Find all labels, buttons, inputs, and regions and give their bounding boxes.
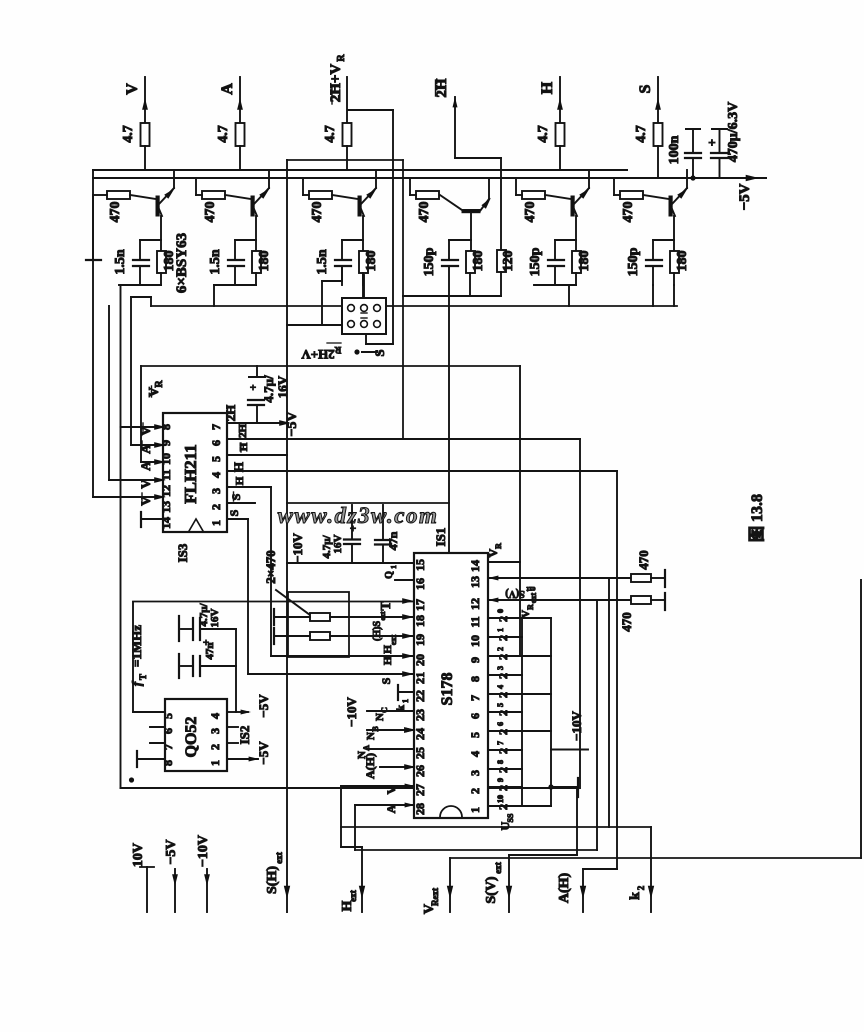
svg-text:470: 470 (523, 202, 538, 223)
svg-text:S(V): S(V) (505, 588, 524, 599)
svg-text:2: 2 (496, 785, 510, 791)
svg-text:2: 2 (496, 692, 510, 698)
svg-text:A: A (362, 745, 371, 751)
svg-text:23: 23 (413, 709, 427, 721)
svg-text:4.7: 4.7 (121, 125, 136, 143)
svg-text:Q: Q (384, 571, 395, 579)
svg-text:2: 2 (496, 729, 510, 735)
svg-text:2H+V: 2H+V (301, 347, 335, 362)
svg-text:21: 21 (413, 672, 427, 684)
svg-text:S: S (379, 677, 393, 684)
svg-text:−10V: −10V (196, 835, 211, 867)
svg-text:13: 13 (468, 576, 482, 588)
svg-text:ext: ext (493, 862, 503, 874)
svg-text:1: 1 (209, 520, 223, 526)
svg-text:16V: 16V (275, 375, 290, 398)
svg-text:3: 3 (468, 770, 482, 776)
svg-text:2: 2 (496, 804, 510, 810)
svg-text:5: 5 (161, 713, 175, 719)
svg-text:2×470: 2×470 (263, 550, 278, 583)
svg-text:2: 2 (496, 710, 510, 716)
svg-text:(H)S: (H)S (372, 621, 383, 641)
svg-text:3: 3 (496, 666, 505, 670)
svg-text:A: A (138, 444, 153, 454)
svg-text:2: 2 (208, 744, 222, 750)
svg-text:ext: ext (389, 635, 398, 646)
svg-text:=1MHz: =1MHz (129, 625, 144, 667)
svg-text:4: 4 (209, 472, 223, 478)
svg-text:4.7μ/: 4.7μ/ (261, 375, 276, 403)
svg-text:6×BSY63: 6×BSY63 (174, 233, 190, 293)
svg-text:17: 17 (413, 599, 427, 611)
svg-text:H H: H H (382, 645, 394, 665)
svg-text:10V: 10V (131, 843, 146, 867)
svg-text:C: C (380, 707, 389, 713)
svg-text:12: 12 (468, 598, 482, 610)
svg-text:470μ/6.3V: 470μ/6.3V (726, 102, 741, 162)
svg-text:2: 2 (496, 748, 510, 754)
svg-text:S: S (637, 84, 654, 93)
svg-text:1.5n: 1.5n (208, 249, 223, 275)
svg-text:IS1: IS1 (433, 528, 448, 547)
svg-text:18: 18 (413, 615, 427, 627)
svg-text:2: 2 (468, 788, 482, 794)
svg-text:−10V: −10V (569, 710, 584, 740)
svg-text:120: 120 (501, 251, 516, 272)
svg-text:7: 7 (161, 744, 175, 750)
svg-text:图 13.8: 图 13.8 (748, 494, 766, 542)
svg-text:+: + (250, 382, 256, 394)
svg-text:H: H (238, 442, 250, 451)
svg-text:10: 10 (468, 635, 482, 647)
svg-text:19: 19 (413, 634, 427, 646)
svg-text:Rext: Rext (430, 888, 440, 906)
svg-text:4: 4 (208, 713, 222, 719)
svg-text:www.dz3w.com: www.dz3w.com (278, 503, 439, 528)
svg-text:A: A (219, 83, 236, 95)
svg-text:4.7: 4.7 (536, 125, 551, 143)
svg-text:T: T (138, 674, 148, 680)
svg-text:+: + (708, 135, 715, 150)
svg-text:8: 8 (496, 760, 505, 764)
svg-text:S(H): S(H) (265, 866, 280, 894)
svg-text:150p: 150p (528, 247, 543, 276)
svg-text:2H: 2H (223, 405, 238, 422)
svg-text:47n: 47n (386, 531, 400, 550)
svg-text:28: 28 (413, 803, 427, 815)
svg-text:2: 2 (209, 504, 223, 510)
svg-text:9: 9 (496, 778, 505, 782)
svg-text:6: 6 (468, 713, 482, 719)
svg-text:470: 470 (310, 202, 325, 223)
svg-text:14: 14 (468, 560, 482, 572)
svg-text:4.7: 4.7 (634, 125, 649, 143)
svg-text:180: 180 (257, 251, 272, 272)
svg-text:100n: 100n (667, 135, 682, 164)
svg-text:1.5n: 1.5n (315, 249, 330, 275)
svg-text:4: 4 (496, 685, 505, 689)
svg-text:−10V: −10V (290, 532, 305, 562)
svg-text:ext: ext (379, 611, 387, 621)
svg-text:S: S (372, 349, 387, 356)
svg-text:8: 8 (161, 760, 175, 766)
svg-text:1: 1 (468, 807, 482, 813)
svg-text:S(V): S(V) (484, 876, 499, 904)
svg-text:k: k (628, 892, 643, 900)
svg-text:150p: 150p (626, 247, 641, 276)
svg-text:180: 180 (577, 251, 592, 272)
svg-text:2: 2 (496, 767, 510, 773)
svg-text:1: 1 (390, 565, 398, 569)
svg-text:A(H): A(H) (557, 873, 572, 904)
svg-text:7: 7 (209, 424, 223, 430)
svg-text:3: 3 (209, 488, 223, 494)
svg-text:1: 1 (208, 760, 222, 766)
svg-text:9: 9 (468, 657, 482, 663)
svg-text:ext: ext (529, 593, 538, 604)
svg-text:27: 27 (413, 784, 427, 796)
svg-text:V: V (138, 479, 153, 489)
svg-text:R: R (334, 345, 341, 355)
svg-text:2: 2 (496, 616, 510, 622)
svg-text:−10V: −10V (344, 696, 359, 726)
svg-text:H: H (234, 476, 246, 485)
svg-text:A: A (138, 461, 153, 471)
svg-text:SS: SS (506, 813, 515, 822)
svg-text:150p: 150p (422, 247, 437, 276)
svg-text:T: T (379, 601, 394, 611)
svg-text:16: 16 (413, 578, 427, 590)
svg-text:180: 180 (471, 251, 486, 272)
svg-text:R: R (154, 380, 165, 388)
svg-text:4.7: 4.7 (216, 125, 231, 143)
svg-text:470: 470 (636, 550, 651, 570)
svg-text:V: V (138, 426, 153, 436)
svg-text:2H: 2H (434, 78, 450, 98)
svg-text:0: 0 (496, 609, 505, 613)
svg-text:IS2: IS2 (237, 726, 252, 745)
svg-text:470: 470 (417, 202, 432, 223)
svg-text:V: V (138, 496, 153, 506)
svg-text:470: 470 (621, 202, 636, 223)
svg-text:−5V: −5V (164, 839, 179, 864)
svg-text:V: V (520, 610, 532, 618)
svg-text:IS3: IS3 (175, 543, 190, 562)
svg-text:7: 7 (468, 695, 482, 701)
svg-text:−5V: −5V (737, 183, 753, 210)
svg-text:1.5n: 1.5n (113, 249, 128, 275)
svg-text:15: 15 (413, 559, 427, 571)
svg-text:5: 5 (468, 732, 482, 738)
svg-text:−5V: −5V (285, 411, 300, 436)
svg-text:H: H (231, 462, 246, 472)
svg-text:R: R (494, 543, 503, 549)
svg-text:16V: 16V (209, 608, 221, 627)
svg-text:1: 1 (401, 699, 410, 703)
svg-text:V: V (124, 83, 141, 95)
svg-text:7: 7 (496, 741, 505, 745)
svg-text:FLH211: FLH211 (181, 444, 200, 504)
svg-text:f: f (129, 680, 144, 686)
svg-text:4: 4 (468, 751, 482, 757)
svg-text:−5V: −5V (256, 694, 271, 718)
svg-text:ext: ext (526, 585, 536, 593)
svg-text:10: 10 (496, 795, 505, 803)
svg-text:180: 180 (364, 251, 379, 272)
svg-text:R: R (526, 604, 535, 610)
svg-text:k: k (395, 704, 407, 711)
svg-text:N: N (365, 732, 377, 740)
svg-text:20: 20 (413, 654, 427, 666)
svg-text:ext: ext (348, 890, 358, 902)
svg-text:S: S (227, 509, 241, 516)
svg-text:H: H (539, 81, 556, 94)
svg-text:180: 180 (675, 251, 690, 272)
svg-text:11: 11 (468, 616, 482, 627)
svg-text:470: 470 (203, 202, 218, 223)
svg-text:N: N (374, 713, 386, 721)
svg-text:5: 5 (209, 456, 223, 462)
svg-text:2H+V: 2H+V (328, 64, 344, 103)
svg-text:1: 1 (496, 628, 505, 632)
svg-text:470: 470 (108, 202, 123, 223)
svg-text:R: R (336, 54, 347, 62)
svg-text:2: 2 (496, 635, 510, 641)
svg-text:6: 6 (496, 722, 505, 726)
svg-text:16V: 16V (332, 534, 344, 553)
svg-text:S178: S178 (439, 673, 456, 706)
svg-text:8: 8 (468, 676, 482, 682)
svg-text:6: 6 (209, 440, 223, 446)
svg-text:2: 2 (496, 654, 510, 660)
svg-text:5: 5 (496, 703, 505, 707)
svg-text:470: 470 (619, 612, 634, 632)
svg-text:ext: ext (274, 852, 284, 864)
svg-text:4.7: 4.7 (323, 125, 338, 143)
svg-text:−5V: −5V (256, 741, 271, 765)
svg-text:12: 12 (159, 485, 173, 497)
svg-text:A(H): A(H) (363, 753, 377, 779)
svg-text:25: 25 (413, 747, 427, 759)
svg-text:47n: 47n (204, 642, 216, 659)
svg-text:2: 2 (496, 673, 510, 679)
svg-text:2: 2 (636, 885, 646, 890)
svg-text:S: S (229, 493, 243, 500)
svg-text:2: 2 (496, 647, 505, 651)
svg-text:6: 6 (161, 728, 175, 734)
svg-text:3: 3 (208, 728, 222, 734)
svg-text:QO52: QO52 (183, 717, 200, 758)
svg-text:13: 13 (159, 501, 173, 513)
svg-text:22: 22 (413, 690, 427, 702)
